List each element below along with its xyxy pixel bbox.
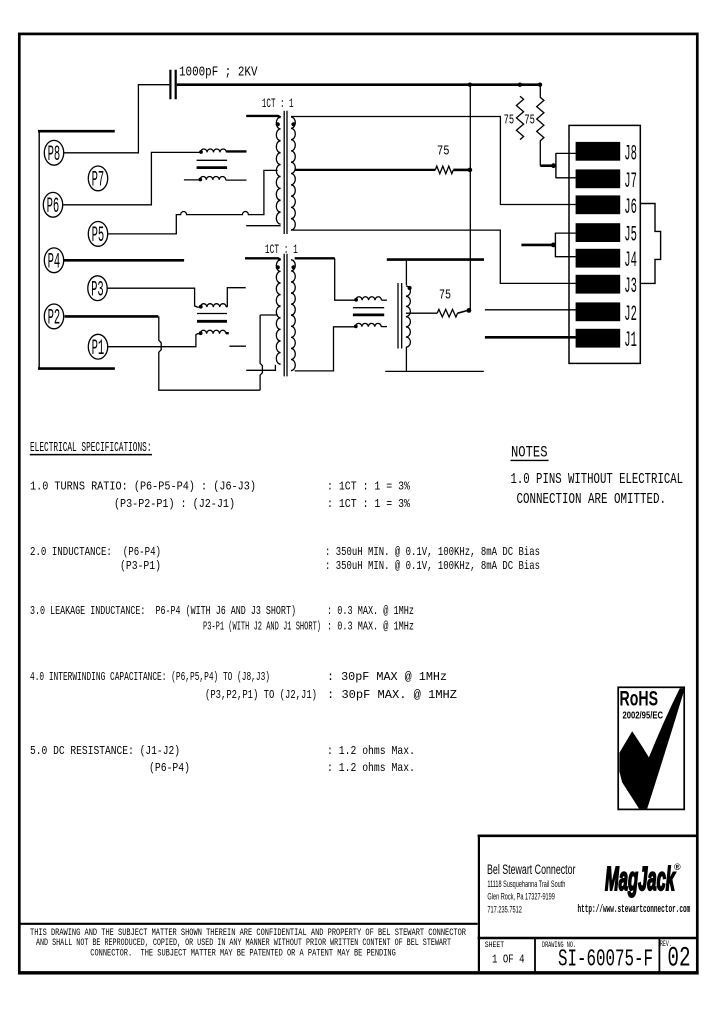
svg-text:®: ® <box>674 862 681 872</box>
pin bar J1 <box>576 329 621 348</box>
autotransformer bottom stub wire <box>385 370 484 372</box>
transformer T2 primary winding <box>276 260 280 364</box>
svg-text:2002/95/EC: 2002/95/EC <box>623 710 664 722</box>
resistor R4 75 <box>437 309 457 317</box>
pin P7 <box>88 166 107 191</box>
svg-text:: 30pF MAX @ 1MHz: : 30pF MAX @ 1MHz <box>327 670 447 684</box>
svg-text:1000pF ; 2KV: 1000pF ; 2KV <box>179 64 258 80</box>
pin P4 <box>44 248 63 273</box>
connector J outline <box>569 125 640 363</box>
svg-text:P3-P1 (WITH J2 AND J1 SHORT): P3-P1 (WITH J2 AND J1 SHORT) <box>203 619 321 633</box>
pin bar J7 <box>576 169 621 188</box>
choke L3 top winding output lead <box>382 299 387 301</box>
autotransformer tap lead to resistor R4 <box>406 312 437 314</box>
choke L3 top winding <box>356 297 382 300</box>
title block borders <box>478 834 698 837</box>
transformer T1 secondary winding <box>291 117 295 230</box>
svg-text:CONNECTOR. THE SUBJECT MATTER: CONNECTOR. THE SUBJECT MATTER MAY BE PAT… <box>90 947 396 959</box>
connector J latch notch <box>640 204 660 284</box>
autotransformer L4 core <box>398 283 402 349</box>
pin bar J4 <box>576 249 621 268</box>
transformer T2 primary top lead <box>245 258 281 260</box>
svg-text:P5: P5 <box>92 223 105 248</box>
choke L2 bottom winding output stub <box>226 332 229 334</box>
transformer T2 primary bottom lead <box>246 365 275 371</box>
wire P6 to choke L1 <box>63 152 201 204</box>
wire P4 <box>64 259 184 262</box>
svg-text:: 0.3 MAX. @ 1MHz: : 0.3 MAX. @ 1MHz <box>327 619 414 633</box>
transformer T2 secondary winding <box>291 260 295 371</box>
transformer T1 primary top lead <box>246 116 280 118</box>
pin bar J6 <box>576 195 621 214</box>
P-side box <box>38 130 115 133</box>
svg-text:4.0 INTERWINDING CAPACITANCE:: 4.0 INTERWINDING CAPACITANCE: (P6,P5,P4)… <box>30 670 270 684</box>
transformer T1 primary bottom lead <box>246 225 280 227</box>
svg-text:P7: P7 <box>92 168 105 193</box>
svg-text:75: 75 <box>437 143 450 159</box>
RoHS logo box <box>618 687 684 809</box>
svg-text:: 1CT : 1 = 3%: : 1CT : 1 = 3% <box>327 479 411 493</box>
choke L3 bottom winding <box>355 323 381 326</box>
svg-text:(P3,P2,P1) TO (J2,J1): (P3,P2,P1) TO (J2,J1) <box>205 688 317 702</box>
svg-text:J4: J4 <box>624 248 637 273</box>
svg-text:J1: J1 <box>624 328 637 353</box>
wire P2 descent to T2 center tap link with jog over P1 wire <box>159 316 260 390</box>
junction node dots on top bus <box>468 83 472 87</box>
autotransformer L4 bottom lead <box>405 347 407 371</box>
disclaimer box <box>19 923 477 925</box>
autotransformer L4 top lead <box>405 260 407 285</box>
bracket wires to J5 and J4 <box>554 233 556 258</box>
resistor R3 75 vertical right <box>537 85 544 166</box>
svg-text:: 1.2 ohms Max.: : 1.2 ohms Max. <box>327 761 415 775</box>
choke L1 top winding <box>201 149 227 152</box>
svg-text:P4: P4 <box>48 249 61 274</box>
svg-text:75: 75 <box>504 113 514 129</box>
wire P5 to T1 center tap with crossover hops <box>108 170 278 234</box>
svg-text:1.0 PINS WITHOUT ELECTRICAL: 1.0 PINS WITHOUT ELECTRICAL <box>511 471 684 488</box>
svg-text:Glen Rock, Pa 17327-9199: Glen Rock, Pa 17327-9199 <box>487 892 555 903</box>
pin bar J5 <box>576 223 621 242</box>
node dot R4 to long vertical <box>467 308 472 313</box>
wire P8 to capacitor <box>64 85 170 153</box>
wire T2 secondary bottom to choke L3 <box>295 327 356 371</box>
svg-text:(P3-P1): (P3-P1) <box>120 559 161 573</box>
center tap stub to J5/J4 <box>521 244 551 247</box>
svg-text:P1: P1 <box>92 336 105 361</box>
choke L3 bottom winding output lead <box>381 326 387 328</box>
transformer T1 primary winding <box>276 117 280 224</box>
svg-text:CONNECTION ARE OMITTED.: CONNECTION ARE OMITTED. <box>517 491 667 508</box>
svg-text:J3: J3 <box>624 274 637 299</box>
pin bar J8 <box>576 142 621 161</box>
svg-text:(P3-P2-P1) : (J2-J1): (P3-P2-P1) : (J2-J1) <box>114 497 235 511</box>
transformer T2 core <box>284 254 287 377</box>
pin P3 <box>88 276 107 301</box>
choke L1 bottom winding <box>200 176 226 179</box>
transformer T2 center tap lead <box>260 314 278 316</box>
resistor R2 75 vertical left <box>516 96 523 139</box>
svg-text:P8: P8 <box>48 142 61 167</box>
svg-text:75: 75 <box>524 113 535 129</box>
choke L2 top winding <box>200 304 226 307</box>
choke L1 core <box>197 159 228 161</box>
svg-text:J7: J7 <box>624 169 637 194</box>
choke L1 top winding output lead <box>226 150 246 152</box>
transformer T1 core <box>284 111 287 234</box>
long vertical wire from top bus <box>469 85 471 311</box>
svg-text:: 350uH MIN. @ 0.1V, 100KHz, 8: : 350uH MIN. @ 0.1V, 100KHz, 8mA DC Bias <box>325 559 540 573</box>
svg-text:(P6-P4): (P6-P4) <box>149 761 190 775</box>
svg-text:717.235.7512: 717.235.7512 <box>487 904 522 915</box>
wire T1 secondary center tap to resistor R1 <box>295 169 436 171</box>
svg-text:1CT : 1: 1CT : 1 <box>262 97 294 111</box>
svg-text:P6: P6 <box>47 194 60 219</box>
pin P8 <box>44 140 63 165</box>
svg-text:5.0 DC RESISTANCE: (J1-J2): 5.0 DC RESISTANCE: (J1-J2) <box>30 744 180 758</box>
svg-text:: 1CT : 1 = 3%: : 1CT : 1 = 3% <box>327 497 411 511</box>
svg-text:NOTES: NOTES <box>511 443 548 461</box>
choke L2 top winding output lead <box>226 288 246 307</box>
RoHS checkmark <box>619 688 685 809</box>
choke L2 bottom winding <box>200 330 226 333</box>
thick stub wire above autotransformer <box>387 258 484 261</box>
capacitor C1 1000pF 2KV <box>170 70 175 99</box>
wire R3 to J8/J7 node <box>540 164 551 167</box>
svg-text:75: 75 <box>439 288 451 304</box>
choke L3 core <box>353 307 384 309</box>
svg-text:Bel Stewart Connector: Bel Stewart Connector <box>487 862 576 877</box>
svg-text:ELECTRICAL SPECIFICATIONS:: ELECTRICAL SPECIFICATIONS: <box>30 440 152 456</box>
resistor R1 75 <box>435 166 453 174</box>
svg-text:1CT : 1: 1CT : 1 <box>265 243 298 257</box>
top bus wire <box>177 83 541 86</box>
floating stub near choke L2 <box>229 345 246 347</box>
svg-text:02: 02 <box>667 944 690 975</box>
border frame bottom edge <box>18 971 699 974</box>
svg-text:P3: P3 <box>91 277 104 302</box>
wire T1 secondary bottom to J3 <box>291 230 576 283</box>
svg-text:1 OF 4: 1 OF 4 <box>492 953 525 967</box>
svg-text:MagJack: MagJack <box>605 860 676 897</box>
T2 center tap descent with jog over primary bottom lead <box>260 315 262 390</box>
svg-text:3.0 LEAKAGE INDUCTANCE: P6-P4: 3.0 LEAKAGE INDUCTANCE: P6-P4 (WITH J6 A… <box>30 604 296 618</box>
pin P6 <box>43 192 62 217</box>
svg-text:RoHS: RoHS <box>620 688 659 711</box>
transformer T2 phase dots <box>276 265 280 269</box>
svg-text:: 350uH MIN. @ 0.1V, 100KHz, 8: : 350uH MIN. @ 0.1V, 100KHz, 8mA DC Bias <box>325 545 540 559</box>
svg-text:J8: J8 <box>624 141 637 166</box>
transformer T1 phase dots <box>276 122 280 126</box>
pin P2 <box>44 304 63 329</box>
svg-text:11118 Susquehanna Trail South: 11118 Susquehanna Trail South <box>487 879 565 890</box>
svg-text:J5: J5 <box>624 223 637 248</box>
wire to J2 <box>485 309 576 311</box>
choke L1 bottom winding leads <box>184 179 247 181</box>
wire P1 to choke L2 <box>108 334 200 347</box>
svg-text:J6: J6 <box>624 195 637 220</box>
svg-text:P2: P2 <box>48 306 61 331</box>
node dot R1 to vertical <box>468 168 473 173</box>
svg-text:: 30pF MAX. @ 1MHZ: : 30pF MAX. @ 1MHZ <box>327 688 457 702</box>
wire P2 <box>65 315 159 318</box>
svg-text:http://www.stewartconnector.co: http://www.stewartconnector.com <box>578 904 691 916</box>
pin P1 <box>88 334 107 359</box>
svg-text:: 1.2 ohms Max.: : 1.2 ohms Max. <box>327 744 415 758</box>
pin bar J2 <box>576 302 621 321</box>
svg-text:1.0 TURNS RATIO: (P6-P5-P4) :: 1.0 TURNS RATIO: (P6-P5-P4) : (J6-J3) <box>30 479 256 493</box>
svg-text:: 0.3 MAX. @ 1MHz: : 0.3 MAX. @ 1MHz <box>327 604 414 618</box>
autotransformer L4 winding <box>406 286 411 347</box>
svg-text:J2: J2 <box>624 302 637 327</box>
svg-text:SHEET: SHEET <box>485 941 505 950</box>
wire to J1 <box>485 336 576 339</box>
wire T1 secondary top to J6 <box>291 117 576 205</box>
wire T2 secondary top to choke L3 <box>295 257 335 259</box>
bracket wires to J8 and J7 <box>555 153 557 178</box>
choke L2 core <box>197 313 227 315</box>
pin bar J3 <box>576 275 621 294</box>
wire P3 to choke L2 <box>107 288 200 307</box>
pin P5 <box>88 222 107 247</box>
svg-text:2.0 INDUCTANCE: (P6-P4): 2.0 INDUCTANCE: (P6-P4) <box>30 545 161 559</box>
svg-text:SI-60075-F: SI-60075-F <box>558 947 653 974</box>
